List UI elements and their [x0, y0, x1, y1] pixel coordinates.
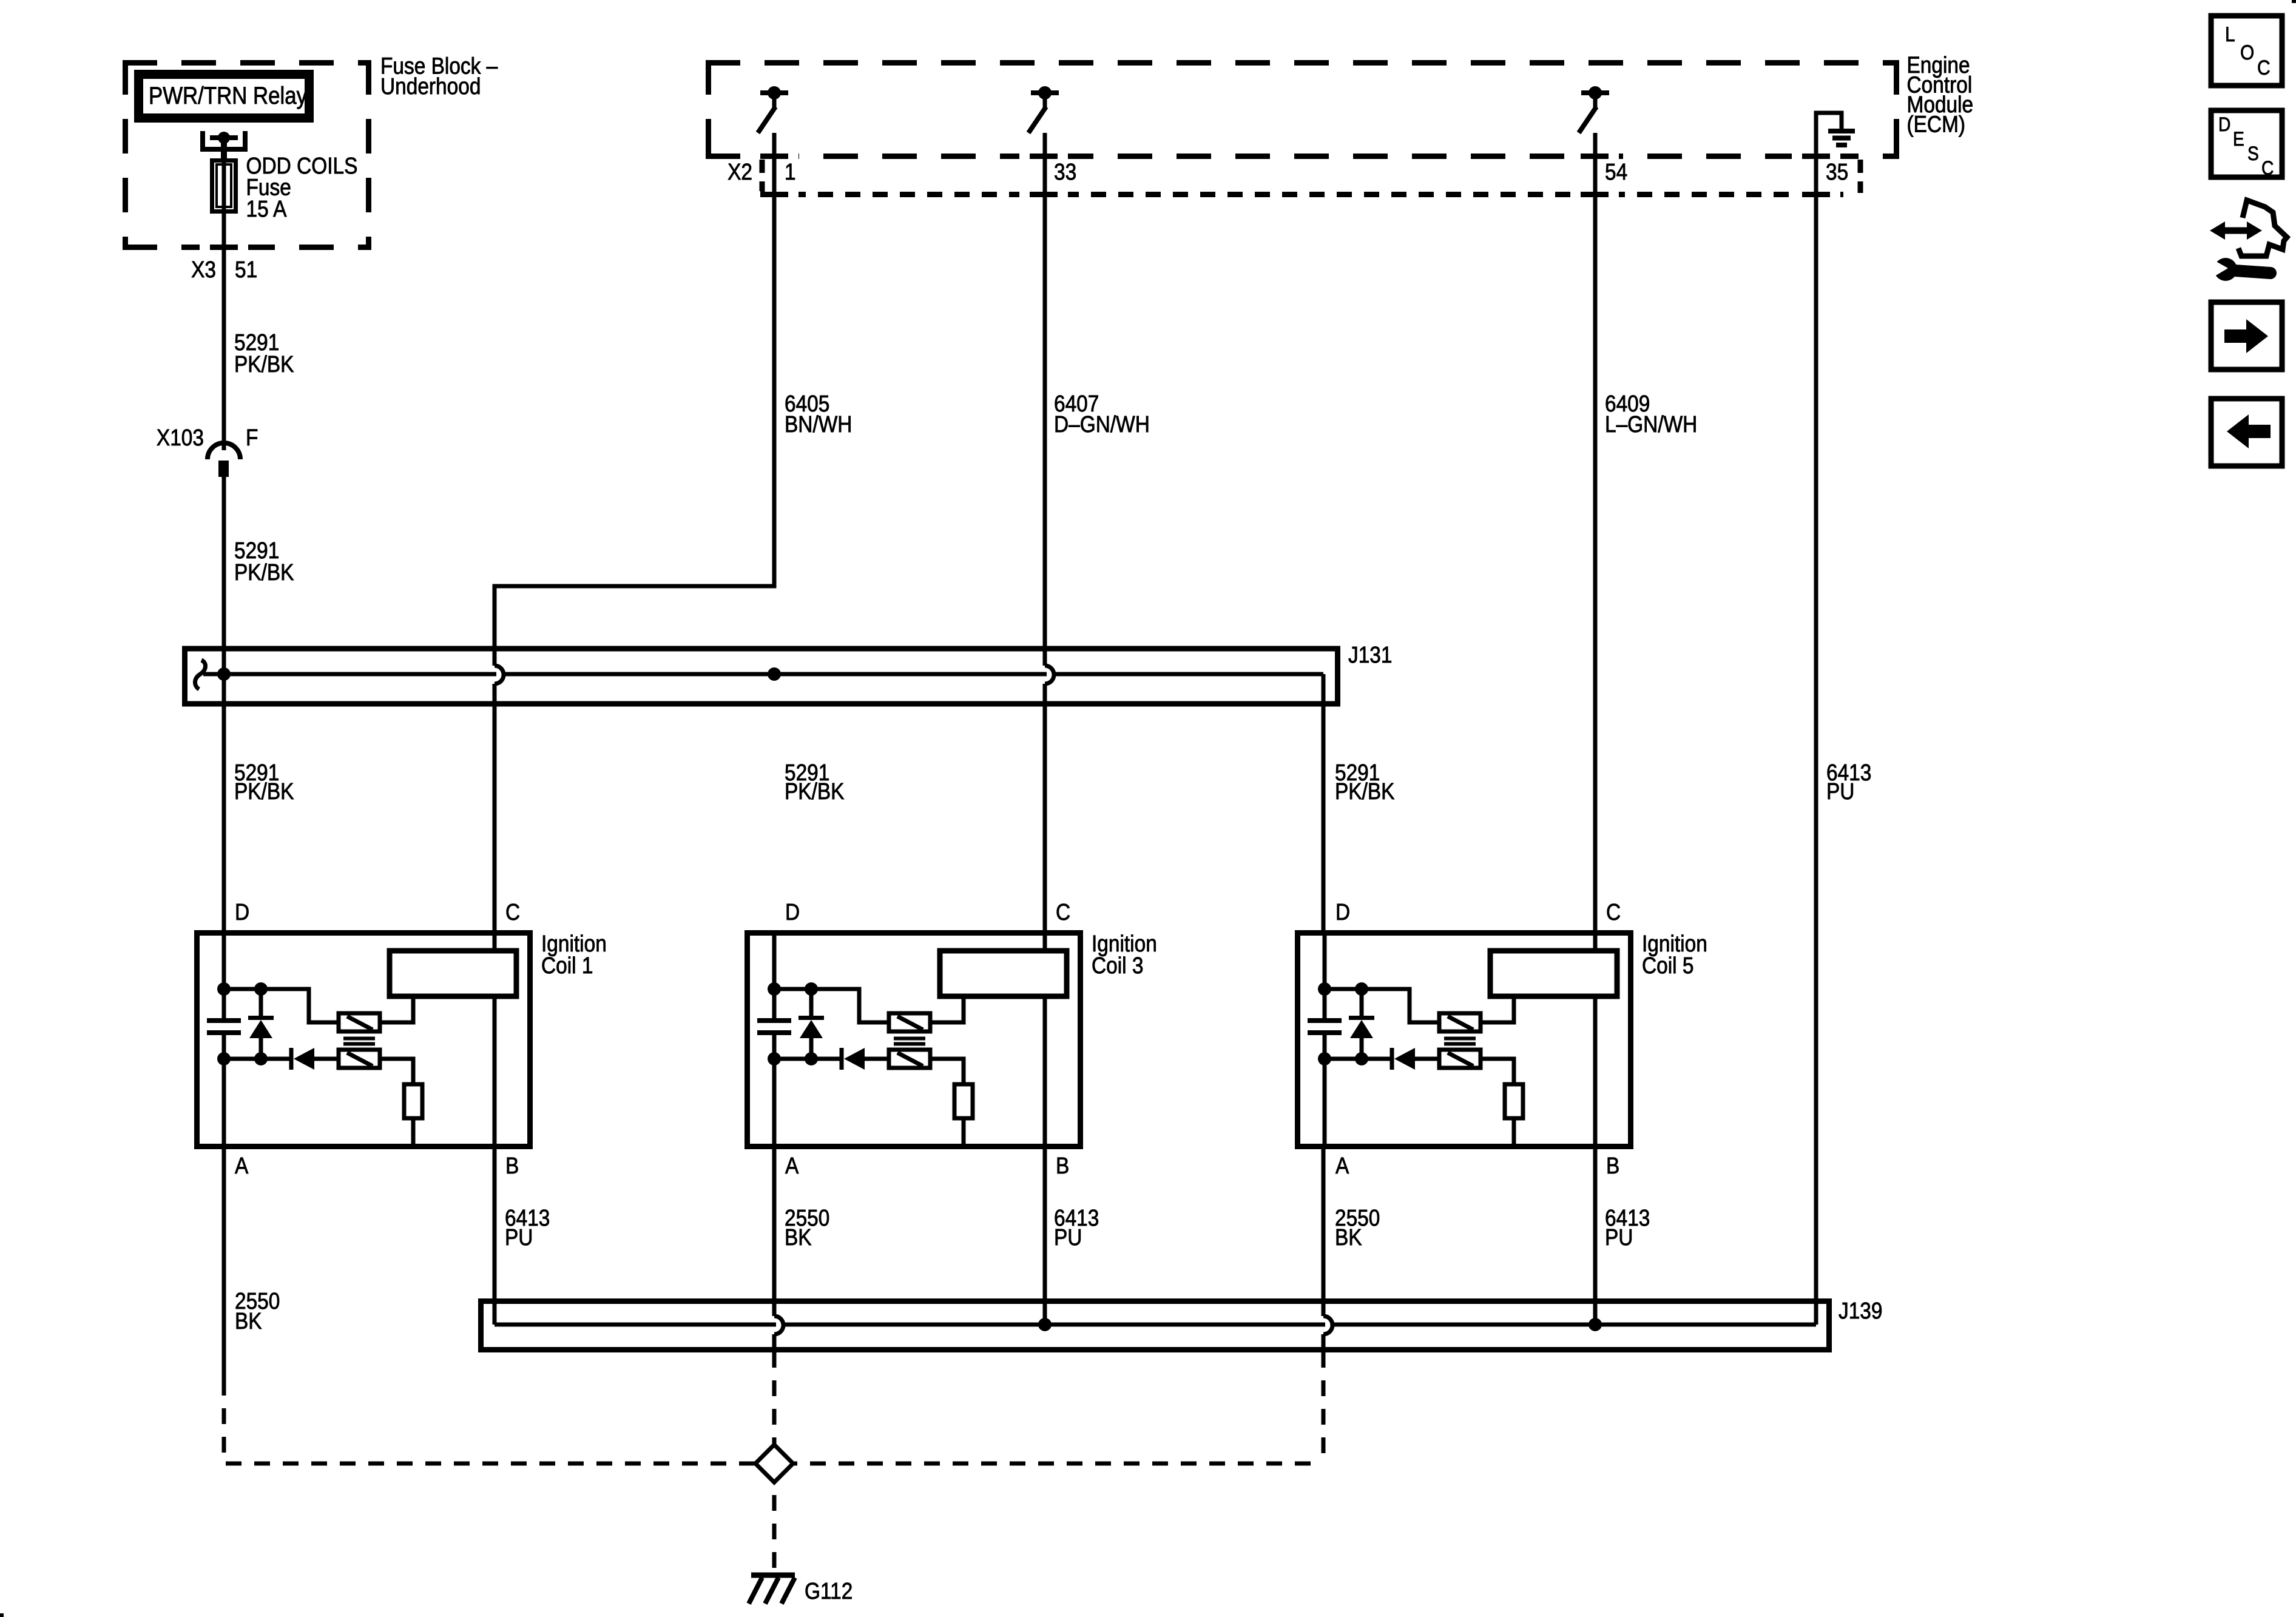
svg-text:PK/BK: PK/BK	[1335, 778, 1395, 804]
svg-text:PU: PU	[1826, 778, 1854, 804]
svg-text:BK: BK	[785, 1224, 812, 1250]
svg-text:S: S	[2247, 143, 2259, 164]
svg-text:PU: PU	[505, 1224, 533, 1250]
svg-text:D: D	[2218, 114, 2230, 135]
J131 bus start curl	[195, 660, 205, 689]
J131 bus bar	[203, 674, 1323, 706]
sidebar back arrow box	[2211, 399, 2282, 466]
dashed ground wire from coil3 A	[772, 1368, 777, 1445]
svg-text:Underhood: Underhood	[380, 73, 481, 99]
wire coil5 A 2550 BK through J139	[1322, 1147, 1326, 1368]
svg-text:X2: X2	[728, 159, 752, 184]
ECM internal ground symbol	[1828, 131, 1855, 145]
wire ECM pin54 6409 L-GN/WH to coil5 C	[1593, 133, 1598, 933]
splice diamond	[755, 1445, 793, 1482]
wire 5291 PK/BK J131 to coil5 D	[1322, 702, 1326, 933]
wire coil5 B 6413 PU to J139	[1593, 1147, 1598, 1325]
svg-text:D: D	[785, 899, 800, 925]
ECM dashed box	[706, 60, 1899, 66]
sidebar double arrow	[2210, 221, 2262, 240]
node J131 coil3 feed junction	[768, 667, 781, 681]
PWR/TRN Relay box	[139, 75, 309, 118]
connector X2 left divider	[760, 160, 765, 193]
wire ECM pin1 6405 BN/WH with jog to coil1 C	[495, 133, 774, 666]
svg-text:G112: G112	[805, 1578, 853, 1604]
connector X2 right divider	[1858, 160, 1863, 193]
svg-text:BN/WH: BN/WH	[785, 411, 852, 437]
fuse block underhood dashed box	[123, 60, 371, 66]
node J139 coil3 B junction	[1038, 1318, 1052, 1331]
svg-text:B: B	[505, 1153, 519, 1178]
svg-text:D–GN/WH: D–GN/WH	[1054, 411, 1150, 437]
svg-text:A: A	[235, 1153, 248, 1178]
wire ECM pin35 6413 PU to J139	[1816, 113, 1842, 1325]
splice pack J131 box	[185, 649, 1338, 704]
svg-text:J139: J139	[1838, 1298, 1882, 1323]
inline connector X103 terminal F	[208, 443, 240, 459]
svg-text:1: 1	[785, 159, 796, 184]
J139 bypass hook at coil3 A wire	[774, 1316, 783, 1334]
node J131 feed junction	[217, 667, 231, 681]
wire ECM pin33 6407 D-GN/WH to coil3 C	[1043, 133, 1047, 933]
svg-text:J131: J131	[1348, 642, 1392, 667]
svg-text:35: 35	[1826, 159, 1848, 184]
wire coil1 B 6413 PU into J139	[493, 1147, 497, 1325]
svg-text:Coil 1: Coil 1	[541, 953, 593, 978]
svg-text:Coil 3: Coil 3	[1092, 953, 1143, 978]
wire coil3 A 2550 BK through J139	[772, 1147, 777, 1368]
relay contact bar	[210, 135, 238, 140]
corner mark top right	[2292, 0, 2296, 3]
svg-text:B: B	[1606, 1153, 1619, 1178]
relay contact bracket	[203, 131, 245, 149]
svg-text:C: C	[1606, 899, 1621, 925]
svg-text:PWR/TRN Relay: PWR/TRN Relay	[149, 82, 307, 109]
connector tick X3	[210, 245, 238, 250]
wire relay to fuse	[221, 138, 227, 160]
dashed wire diamond to ground	[772, 1482, 777, 1573]
wire coil3 B 6413 PU to J139	[1043, 1147, 1047, 1325]
wire coil1 A 2550 BK solid part	[222, 1147, 226, 1396]
svg-text:(ECM): (ECM)	[1907, 112, 1966, 137]
svg-text:O: O	[2240, 41, 2254, 64]
svg-text:PU: PU	[1054, 1224, 1082, 1250]
pin tick marks at X2 line	[760, 192, 1830, 197]
J131 bypass hook at coil1 C wire	[495, 666, 504, 684]
svg-text:PK/BK: PK/BK	[234, 351, 294, 377]
svg-text:E: E	[2233, 129, 2244, 150]
svg-text:B: B	[1056, 1153, 1069, 1178]
sidebar vehicle hood icon	[2238, 200, 2287, 256]
svg-text:X3: X3	[191, 257, 216, 282]
svg-text:C: C	[505, 899, 520, 925]
svg-text:D: D	[235, 899, 249, 925]
dashed ground wire from coil5 A	[793, 1368, 1323, 1463]
splice pack J139 box	[481, 1301, 1829, 1350]
ECM driver pin 1	[758, 86, 788, 133]
white gaps around pin ticks	[750, 153, 760, 160]
dashed ground wire from coil1 A	[224, 1396, 755, 1463]
svg-text:L–GN/WH: L–GN/WH	[1605, 411, 1697, 437]
relay contact dot	[218, 132, 230, 144]
svg-text:Coil 5: Coil 5	[1642, 953, 1693, 978]
ignition coil 1	[197, 933, 530, 1147]
ignition coil 5	[1298, 933, 1631, 1147]
svg-text:C: C	[2261, 158, 2274, 179]
sidebar LOC box	[2211, 16, 2282, 86]
sidebar wrench icon	[2207, 257, 2271, 281]
ECM driver pin 33	[1028, 86, 1059, 133]
svg-text:PK/BK: PK/BK	[785, 778, 845, 804]
ECM driver pin 54	[1579, 86, 1609, 133]
J131 bypass hook at coil3 C wire	[1045, 666, 1054, 684]
fuse ODD COILS 15 A	[212, 161, 236, 212]
svg-text:C: C	[1056, 899, 1070, 925]
wire 5291 PK/BK X103 to J131	[222, 477, 226, 933]
J139 bypass hook at coil5 A wire	[1323, 1316, 1332, 1334]
node J139 coil5 B junction	[1589, 1318, 1602, 1331]
svg-text:33: 33	[1054, 159, 1076, 184]
svg-text:51: 51	[235, 257, 257, 282]
svg-text:PK/BK: PK/BK	[234, 778, 294, 804]
wire coil1 C below hook	[493, 684, 497, 933]
svg-text:PU: PU	[1605, 1224, 1633, 1250]
svg-text:X103: X103	[157, 425, 204, 450]
svg-text:D: D	[1335, 899, 1350, 925]
svg-text:A: A	[1335, 1153, 1349, 1178]
svg-text:PK/BK: PK/BK	[234, 559, 294, 585]
corner mark bottom left	[0, 1613, 4, 1617]
sidebar next arrow box	[2211, 302, 2282, 370]
svg-text:F: F	[246, 425, 258, 450]
svg-text:15 A: 15 A	[246, 196, 287, 221]
pin tick marks at ECM box bottom	[760, 154, 1830, 159]
svg-text:BK: BK	[235, 1308, 262, 1334]
sidebar DESC box	[2211, 110, 2282, 177]
svg-text:54: 54	[1605, 159, 1627, 184]
connector X2 dotted line	[763, 192, 1852, 197]
svg-text:L: L	[2225, 22, 2235, 46]
svg-text:A: A	[785, 1153, 799, 1178]
svg-text:C: C	[2257, 56, 2271, 79]
J139 bus bar	[495, 1323, 1816, 1327]
svg-text:BK: BK	[1335, 1224, 1362, 1250]
ignition coil 3	[748, 933, 1081, 1147]
ground G112 symbol	[751, 1573, 795, 1578]
